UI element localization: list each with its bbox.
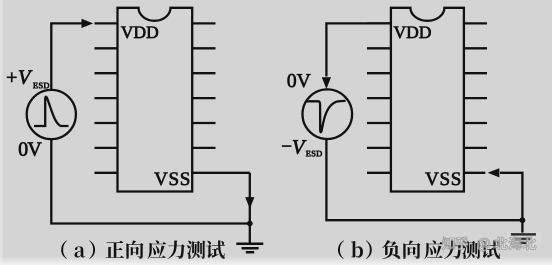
junction dot node A — [247, 221, 253, 227]
ground GND1 — [236, 244, 263, 252]
U2 left pins 1-7 — [367, 22, 391, 24]
ESD source V1 circle — [27, 90, 76, 139]
label 0V at V2 — [288, 74, 311, 87]
V2 negative pulse waveform — [307, 101, 346, 132]
caption (b) negative stress test — [338, 240, 500, 259]
scan light edge left — [0, 0, 3, 265]
junction dot node B — [520, 217, 526, 223]
scan wash over GND2 — [507, 232, 541, 246]
caption (a) forward stress test — [61, 240, 225, 259]
arrowhead into U1 pin1 — [82, 19, 94, 28]
arrowhead node A to GND1 — [245, 197, 254, 209]
V1 positive pulse waveform — [34, 97, 69, 126]
watermark zhihu body — [442, 237, 536, 251]
wire U2 pin1 to V2 top — [326, 23, 391, 76]
wire node A to ground GND1 — [249, 173, 251, 243]
label U1 VDD — [121, 27, 158, 39]
wire V1 bottom to node A — [51, 139, 250, 223]
U1 right pins 8-13 — [192, 22, 215, 24]
label 0V at V1 — [19, 142, 42, 156]
label +VESD at V1 — [7, 70, 49, 88]
label U2 VDD — [394, 27, 431, 39]
wire U1 VSS pin to node A — [192, 172, 250, 174]
label U2 VSS — [425, 172, 460, 185]
label U1 VSS — [154, 172, 189, 185]
wire U2 VSS to node B — [500, 173, 523, 233]
scan light band bottom — [0, 256, 552, 265]
U1 left pins 1-7 — [95, 22, 118, 24]
U2 VSS pin stub — [464, 172, 485, 174]
U2 right pins 8-13 — [464, 22, 487, 24]
ground GND2 — [511, 234, 536, 243]
watermark zhihu shadow — [442, 237, 536, 251]
arrowhead into V2 top — [322, 77, 331, 89]
IC chip U1 body — [118, 8, 193, 192]
IC chip U2 body — [391, 8, 464, 192]
wire V1 top to U1 pin1 — [51, 23, 83, 90]
label -VESD at V2 — [282, 140, 322, 156]
wire V2 bottom to node B — [326, 139, 522, 220]
arrowhead into U2 VSS pin — [488, 168, 500, 177]
ESD source V2 circle — [303, 89, 353, 139]
